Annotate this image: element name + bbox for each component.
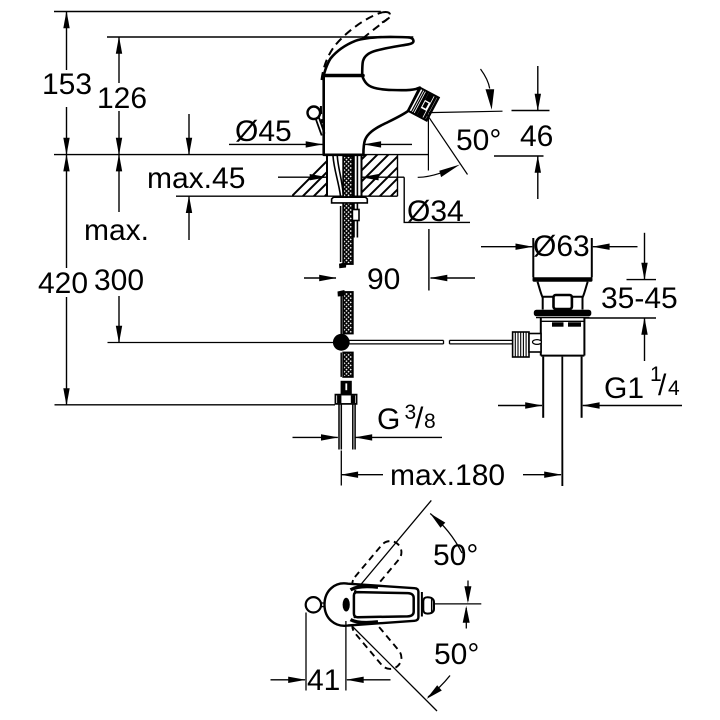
svg-text:90: 90 xyxy=(367,263,400,296)
svg-text:35-45: 35-45 xyxy=(601,282,678,315)
svg-text:/: / xyxy=(658,369,667,402)
hose guide curves in counter hole xyxy=(333,156,357,238)
svg-text:153: 153 xyxy=(42,68,92,101)
svg-text:300: 300 xyxy=(94,264,144,297)
solid faucet outline xyxy=(324,37,420,155)
G3/8 supply tube xyxy=(339,404,355,449)
dim 153 vertical xyxy=(66,12,68,71)
supply tube nut xyxy=(335,395,356,404)
max300 bottom reference line / popup rod line xyxy=(108,342,334,344)
popup knob xyxy=(308,107,321,120)
svg-text:4: 4 xyxy=(668,377,680,400)
svg-text:126: 126 xyxy=(97,82,147,115)
hose break bevel lower + braided hose mid segment xyxy=(338,290,345,297)
svg-text:G: G xyxy=(377,403,400,436)
dim max.45 arrows xyxy=(188,114,190,240)
counter top reference line xyxy=(54,154,429,156)
braided hose below ball joint xyxy=(343,353,353,377)
svg-text:Ø34: Ø34 xyxy=(407,195,464,228)
dim 126 vertical xyxy=(118,37,120,83)
svg-text:8: 8 xyxy=(424,410,436,433)
hose break bevel upper xyxy=(339,262,347,268)
knurled nut and rod connector on drain xyxy=(513,332,542,357)
aerator xyxy=(408,87,439,121)
handle bottom thick line xyxy=(324,74,363,78)
pop-up knob top view xyxy=(306,597,321,612)
drain rubber flange xyxy=(534,310,592,317)
dashed rotated handle positions xyxy=(348,537,406,674)
handle centerline reference xyxy=(434,603,481,605)
drain plug cylinder sides / Ø63 extension lines xyxy=(533,238,592,278)
50 degree diagonal construction lines xyxy=(355,500,431,591)
svg-text:420: 420 xyxy=(38,267,88,300)
coupling fitting on rigid pipe xyxy=(352,210,359,221)
svg-text:max.45: max.45 xyxy=(147,162,245,195)
drain body and tailpipe xyxy=(536,318,590,486)
braided supply hose upper segment xyxy=(343,156,353,264)
top reference line xyxy=(54,11,381,13)
mounting flange washer under counter xyxy=(332,197,368,203)
hose end fitting block xyxy=(341,381,352,395)
svg-text:max.180: max.180 xyxy=(390,459,505,492)
pop-up rod horizontal linkage xyxy=(348,340,513,344)
svg-text:max.: max. xyxy=(84,214,149,247)
overflow slots xyxy=(552,322,564,326)
hole edges xyxy=(326,155,328,197)
svg-text:G1: G1 xyxy=(604,372,644,405)
dim 420 vertical xyxy=(66,155,68,268)
solid handle outline top view xyxy=(325,583,435,625)
svg-text:50°: 50° xyxy=(434,638,479,671)
svg-text:/: / xyxy=(415,402,424,435)
handle + body silhouette xyxy=(324,37,420,155)
dashed raised handle xyxy=(321,12,390,123)
angular dimension arcs and arrowheads xyxy=(428,514,468,698)
svg-text:50°: 50° xyxy=(456,124,501,157)
counter right edge xyxy=(397,155,399,197)
svg-text:46: 46 xyxy=(520,120,553,153)
second reference line xyxy=(107,36,413,38)
svg-text:Ø45: Ø45 xyxy=(235,115,292,148)
svg-text:50°: 50° xyxy=(433,539,478,572)
drain plug tapered neck and stem xyxy=(538,282,588,310)
drain plug top plate xyxy=(533,277,593,281)
max180 left extension line xyxy=(340,451,342,486)
svg-text:Ø63: Ø63 xyxy=(533,230,590,263)
counter bottom reference line xyxy=(176,195,398,197)
svg-text:41: 41 xyxy=(307,664,340,697)
420 bottom reference line xyxy=(55,404,336,406)
pop-up rod ball joint xyxy=(333,334,350,351)
dim max300 vertical xyxy=(118,155,120,212)
